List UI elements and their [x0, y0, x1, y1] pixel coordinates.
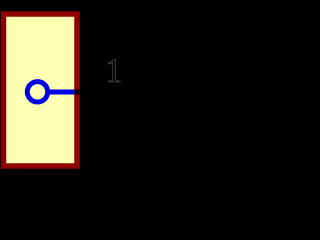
pin 1 inversion bubble — [27, 82, 47, 102]
pin-line/border overlap (blend artifact) — [75, 90, 80, 95]
pin number 1 — [108, 60, 120, 82]
component body — [4, 14, 78, 166]
pin 1 wire — [49, 90, 80, 95]
